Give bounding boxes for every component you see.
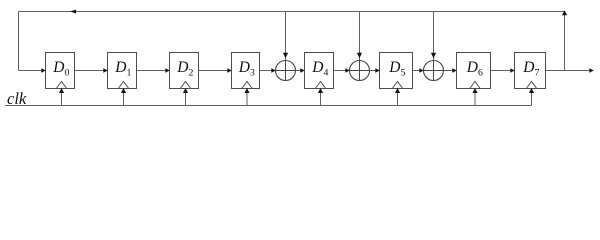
- wire: feedback bus top horizontal: [19, 11, 565, 13]
- wire: D0 output to D1 input: [75, 68, 108, 72]
- wire: feedback right vertical rise from D7 output: [562, 10, 567, 70]
- svg-text:3: 3: [250, 67, 255, 78]
- wire: XOR X2 output to D5 input: [370, 68, 380, 72]
- D flip-flop D5: [380, 53, 413, 89]
- svg-text:D: D: [114, 59, 126, 76]
- wire: D5 output to XOR X3 input: [413, 68, 424, 72]
- wire: D1 output to D2 input: [137, 68, 170, 72]
- svg-text:D: D: [388, 59, 400, 76]
- svg-text:7: 7: [535, 67, 540, 78]
- D flip-flop D2: [170, 53, 199, 89]
- XOR gate X3 (modulo-2 adder): [424, 61, 444, 81]
- svg-text:D: D: [311, 59, 323, 76]
- label: clk: [7, 89, 27, 108]
- wire: feedback tap into XOR X2: [357, 12, 362, 61]
- D flip-flop D0: [46, 53, 75, 89]
- D flip-flop D1: [108, 53, 137, 89]
- svg-text:D: D: [238, 59, 250, 76]
- wire: clk branch to D0 clock pin: [59, 88, 64, 106]
- wire: feedback left vertical drop: [18, 12, 20, 71]
- wire: clk branch to D1 clock pin: [121, 88, 126, 106]
- wire: D3 output to XOR X1 input: [260, 68, 276, 72]
- wire: clk branch to D6 clock pin: [472, 88, 477, 106]
- arrowhead: feedback direction (leftward) on top wire: [70, 10, 76, 14]
- svg-text:0: 0: [65, 67, 70, 78]
- wire: D6 output to D7 input: [491, 68, 515, 72]
- svg-text:D: D: [522, 59, 534, 76]
- D flip-flop D4: [305, 53, 334, 89]
- wire: clk branch to D3 clock pin: [244, 88, 249, 106]
- svg-text:D: D: [466, 59, 478, 76]
- wire: D4 output to XOR X2 input: [334, 68, 350, 72]
- wire: feedback tap into XOR X3: [431, 12, 436, 61]
- D flip-flop D3: [232, 53, 260, 89]
- D flip-flop D7: [515, 53, 546, 89]
- wire: clk branch to D5 clock pin: [395, 88, 400, 106]
- svg-text:4: 4: [324, 67, 329, 78]
- wire: feedback tap into XOR X1: [283, 12, 288, 61]
- wire: clk branch to D4 clock pin: [318, 88, 323, 106]
- svg-text:D: D: [52, 59, 64, 76]
- wire: clk branch to D2 clock pin: [183, 88, 188, 106]
- wire: XOR X1 output to D4 input: [296, 68, 305, 72]
- svg-text:1: 1: [127, 67, 132, 78]
- XOR gate X1 (modulo-2 adder): [276, 61, 296, 81]
- wire: XOR X3 output to D6 input: [444, 68, 457, 72]
- svg-text:D: D: [176, 59, 188, 76]
- wire: D2 output to D3 input: [199, 68, 232, 72]
- wire: clk distribution bus: [5, 105, 532, 107]
- svg-text:2: 2: [189, 67, 194, 78]
- XOR gate X2 (modulo-2 adder): [350, 61, 370, 81]
- svg-text:6: 6: [478, 67, 483, 78]
- svg-text:5: 5: [401, 67, 406, 78]
- wire: D7 output to serial out: [546, 68, 594, 72]
- wire: D0 input segment: [19, 68, 46, 72]
- D flip-flop D6: [457, 53, 491, 89]
- wire: clk branch to D7 clock pin: [529, 88, 534, 106]
